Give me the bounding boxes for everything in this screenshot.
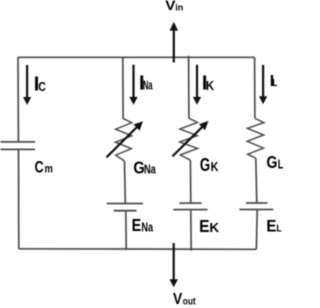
wire left branch upper bbox=[17, 57, 19, 142]
wire Na branch middle bbox=[124, 161, 127, 203]
battery EK bbox=[173, 203, 207, 210]
node Vout arrow bbox=[170, 243, 178, 287]
wire bottom bus bbox=[19, 248, 257, 251]
current arrow IC bbox=[23, 65, 31, 105]
node Vin label bbox=[165, 0, 183, 13]
svg-text:Na: Na bbox=[144, 162, 156, 177]
resistor GL bbox=[247, 118, 264, 158]
svg-text:C: C bbox=[35, 159, 44, 177]
resistor GK (variable) bbox=[172, 118, 208, 160]
battery ENa value label bbox=[132, 215, 154, 235]
svg-text:K: K bbox=[209, 220, 219, 235]
current arrow INa bbox=[129, 65, 137, 105]
svg-text:L: L bbox=[276, 223, 282, 235]
wire top bus bbox=[18, 56, 255, 58]
capacitor Cm value label bbox=[35, 159, 53, 177]
svg-text:Na: Na bbox=[141, 220, 153, 234]
wire Na branch upper bbox=[122, 57, 124, 119]
battery ENa bbox=[107, 204, 143, 211]
resistor GL value label bbox=[267, 152, 284, 172]
current IL label bbox=[270, 73, 278, 90]
svg-text:K: K bbox=[206, 78, 215, 93]
wire L branch lower bbox=[255, 210, 258, 250]
wire K branch middle bbox=[189, 160, 191, 203]
battery EL bbox=[239, 203, 273, 210]
wire K branch lower bbox=[190, 210, 192, 251]
svg-text:G: G bbox=[267, 152, 278, 172]
svg-text:K: K bbox=[211, 159, 219, 174]
svg-text:in: in bbox=[175, 3, 183, 13]
resistor GNa value label bbox=[133, 158, 156, 178]
current IK label bbox=[202, 73, 215, 95]
svg-text:V: V bbox=[173, 290, 182, 308]
svg-text:G: G bbox=[200, 155, 210, 175]
svg-text:Na: Na bbox=[143, 79, 153, 93]
battery EL value label bbox=[266, 218, 282, 236]
svg-text:m: m bbox=[45, 162, 53, 176]
capacitor Cm bbox=[0, 142, 35, 150]
resistor GNa (variable) bbox=[107, 118, 143, 161]
wire Na branch lower bbox=[125, 211, 127, 250]
wire K branch upper bbox=[188, 56, 190, 118]
wire L branch middle bbox=[255, 158, 258, 203]
svg-text:E: E bbox=[199, 216, 210, 236]
svg-text:C: C bbox=[38, 79, 46, 94]
current arrow IL bbox=[259, 65, 267, 104]
node Vin arrow bbox=[170, 22, 179, 63]
svg-text:L: L bbox=[278, 157, 283, 171]
node Vout label bbox=[173, 290, 196, 308]
battery EK value label bbox=[199, 216, 220, 236]
svg-text:E: E bbox=[132, 215, 142, 235]
wire left branch lower bbox=[18, 149, 20, 248]
wire L branch upper bbox=[254, 57, 256, 118]
svg-text:L: L bbox=[273, 78, 278, 89]
resistor GK value label bbox=[200, 155, 219, 175]
current arrow IK bbox=[193, 65, 201, 105]
current IC label bbox=[34, 74, 46, 96]
svg-text:out: out bbox=[183, 295, 196, 307]
current INa label bbox=[139, 72, 153, 94]
svg-text:E: E bbox=[266, 218, 276, 236]
